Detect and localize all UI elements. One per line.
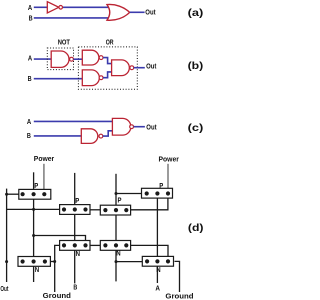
- inverter U1: [47, 2, 62, 13]
- wire or-gate to Out (a): [130, 11, 145, 13]
- wire Q8 right to ground-right: [175, 261, 180, 292]
- transistor Q3 (P, row2 right): [100, 198, 130, 215]
- power drop left: [43, 164, 45, 190]
- svg-text:Out: Out: [146, 61, 157, 70]
- node notA-Q2 junction: [32, 208, 35, 211]
- svg-text:B: B: [27, 131, 31, 140]
- svg-text:P: P: [75, 198, 79, 205]
- transistor Q7 (N, bottom-left): [18, 257, 50, 274]
- wire Q2 to Q3: [90, 209, 102, 211]
- svg-text:Out: Out: [145, 8, 156, 17]
- node notA tap junction: [32, 234, 35, 237]
- svg-text:(d): (d): [188, 222, 204, 234]
- transistor Q6 (N, row3 right): [100, 241, 130, 258]
- svg-text:N: N: [116, 251, 120, 258]
- net NOT-A vertical: [33, 172, 35, 282]
- net A vertical: [156, 194, 158, 284]
- svg-text:P: P: [159, 183, 163, 190]
- wire B to nand U5 (b): [34, 78, 83, 80]
- wire Q5 left down to ground-left line: [55, 245, 61, 292]
- node ground-left junction: [53, 260, 56, 263]
- transistor Q1 (P, top-left): [19, 183, 51, 199]
- svg-text:A: A: [28, 54, 33, 63]
- svg-text:B: B: [29, 13, 33, 22]
- wire notB to Q8 left: [116, 261, 144, 263]
- wire Q3 to Q4 bottom: [130, 198, 168, 210]
- nand U8: [112, 118, 133, 135]
- node notB-Q4 junction: [115, 192, 118, 195]
- svg-text:A: A: [28, 3, 33, 12]
- nand U3 (NOT box): [51, 51, 73, 67]
- node rail-Q1 junction: [5, 193, 8, 196]
- node rail-Q7 junction: [5, 260, 8, 263]
- svg-text:N: N: [35, 267, 39, 274]
- svg-text:P: P: [118, 198, 122, 205]
- wire Q7 right to ground-left line: [50, 261, 55, 263]
- svg-text:Ground: Ground: [43, 293, 71, 300]
- transistor Q5 (N, row3 left): [60, 241, 90, 258]
- wire Q6 right to Q8 top: [130, 245, 169, 257]
- wire U7 to U8 (c): [103, 131, 114, 136]
- wire A to nand U8 (c): [34, 120, 114, 122]
- node notB-Q8 junction: [115, 260, 118, 263]
- wire U3 to U4 (b): [73, 58, 83, 60]
- wire A to inverter (a): [34, 6, 48, 8]
- svg-text:P: P: [34, 183, 38, 190]
- wire B to nand U7 (c): [34, 135, 82, 137]
- svg-text:Out: Out: [146, 123, 157, 132]
- transistor Q2 (P, row2 left): [60, 198, 90, 215]
- svg-text:N: N: [76, 251, 80, 258]
- svg-text:OR: OR: [106, 37, 114, 46]
- nand U4 (OR box top): [82, 50, 103, 65]
- wire notB to Q4 left: [116, 193, 143, 195]
- wire U4 to U6 (b): [103, 58, 113, 64]
- wire U8 to Out (c): [134, 126, 145, 128]
- nand U6 (OR box right): [112, 60, 134, 76]
- wire U6 to Out (b): [134, 67, 145, 69]
- wire B to or-gate (a): [34, 17, 110, 19]
- power drop right: [167, 164, 169, 189]
- wire U5 to U6 (b): [103, 72, 113, 78]
- net B vertical: [74, 173, 76, 284]
- svg-text:(b): (b): [188, 60, 204, 72]
- svg-text:(a): (a): [188, 7, 204, 19]
- dotted box NOT: [47, 48, 73, 70]
- svg-text:Ground: Ground: [165, 293, 193, 300]
- svg-text:N: N: [156, 267, 160, 274]
- wire Q5 to Q6: [89, 244, 102, 246]
- nand U7: [81, 129, 103, 144]
- svg-text:B: B: [28, 74, 32, 83]
- out rail vertical: [6, 189, 8, 282]
- wire A to nand U3 (b): [34, 58, 52, 60]
- svg-text:NOT: NOT: [58, 38, 71, 47]
- svg-text:A: A: [27, 117, 32, 126]
- svg-text:Power: Power: [159, 156, 180, 163]
- wire notA to Q5 right dot: [34, 236, 86, 242]
- transistor Q8 (N, bottom-right): [142, 256, 173, 274]
- dotted box OR: [78, 47, 137, 89]
- svg-text:Out: Out: [0, 286, 8, 293]
- wire rail to Q1: [6, 193, 20, 195]
- svg-text:Power: Power: [34, 156, 55, 163]
- wire rail to Q2: [6, 208, 61, 210]
- svg-text:(c): (c): [188, 122, 204, 134]
- svg-text:B: B: [73, 284, 77, 291]
- wire inverter to or-gate (a): [62, 6, 110, 8]
- net NOT-B vertical: [115, 174, 117, 282]
- transistor Q4 (P, top-right): [142, 183, 173, 198]
- or-gate U2: [107, 4, 130, 20]
- svg-text:A: A: [155, 286, 160, 293]
- nand U5 (OR box bottom): [82, 70, 103, 86]
